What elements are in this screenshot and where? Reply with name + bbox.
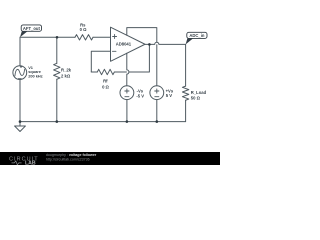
resistor Rf: [97, 69, 114, 74]
wire R_2k bottom to bus: [56, 79, 58, 121]
svg-text:R_2k: R_2k: [61, 68, 72, 73]
wire +Vs to bus: [156, 100, 158, 122]
svg-text:5 V: 5 V: [166, 93, 172, 98]
svg-text:0 Ω: 0 Ω: [80, 27, 87, 32]
svg-text:http://circuitlab.com/c23736: http://circuitlab.com/c23736: [46, 157, 90, 161]
svg-text:-5 V: -5 V: [136, 93, 144, 98]
wire op-amp output: [145, 43, 149, 45]
wire V+ pin to +Vs rail: [127, 28, 157, 86]
wire ADC node down to R_Load: [185, 44, 187, 86]
footer bar: [0, 152, 220, 165]
wire ground bus: [20, 121, 186, 123]
svg-text:2 kΩ: 2 kΩ: [61, 74, 71, 79]
wire top from AFT_out node to Rs: [20, 36, 75, 38]
resistor Rs: [75, 35, 93, 40]
label R_2k: [61, 68, 72, 79]
ground: [19, 122, 21, 126]
node R_2k/bus: [56, 120, 59, 123]
wire op-amp -in to feedback corner: [91, 51, 110, 72]
label V1: [28, 65, 43, 79]
resistor R_Load: [182, 86, 188, 100]
svg-text:AFT_out: AFT_out: [23, 26, 41, 31]
op-amp U1 AD8041 triangle: [111, 27, 146, 61]
wire Rs to op-amp +in: [93, 36, 111, 38]
label Rs: [80, 22, 87, 32]
svg-text:200 kHz: 200 kHz: [28, 74, 43, 79]
node output/feedback junction: [148, 43, 151, 46]
svg-text:R_Load: R_Load: [191, 90, 207, 95]
wire feedback Rf to output: [114, 44, 149, 72]
svg-text:Rf: Rf: [103, 79, 108, 84]
net flag AFT_out: [20, 25, 42, 37]
wire V1 to ground bus: [19, 80, 21, 122]
svg-text:50 Ω: 50 Ω: [191, 96, 201, 101]
source +Vs 5 V: [150, 86, 164, 100]
label Rf: [102, 79, 109, 90]
label -Vs: [136, 89, 144, 99]
svg-text:ADC_in: ADC_in: [189, 33, 205, 38]
wire output to ADC node with hop over V+ rail: [155, 42, 159, 44]
wire left rail down to V1: [19, 37, 21, 66]
net flag ADC_in: [186, 32, 207, 44]
resistor R_2k: [54, 63, 60, 79]
label R_Load: [191, 90, 207, 101]
junction dots: [19, 36, 158, 123]
source -Vs -5 V: [120, 86, 134, 100]
wire V- pin down to -Vs with hop over feedback wire: [127, 70, 129, 74]
node +Vs/bus: [156, 120, 159, 123]
source V1 square 200 kHz: [13, 66, 27, 80]
node -Vs/bus: [126, 120, 129, 123]
wire feedback left lead: [91, 71, 97, 73]
wire R_Load bottom: [185, 100, 187, 121]
svg-text:LAB: LAB: [25, 161, 36, 165]
node Rs/R_2k junction: [56, 36, 59, 39]
svg-text:AD8041: AD8041: [116, 41, 132, 46]
footer CircuitLab logo: [9, 156, 39, 166]
svg-text:0 Ω: 0 Ω: [102, 84, 109, 89]
label +Vs: [166, 89, 174, 99]
wire R_2k branch top: [56, 37, 58, 63]
node ground tap: [19, 120, 22, 123]
footer attribution text: [46, 153, 97, 161]
wire -Vs to bus: [126, 100, 128, 122]
